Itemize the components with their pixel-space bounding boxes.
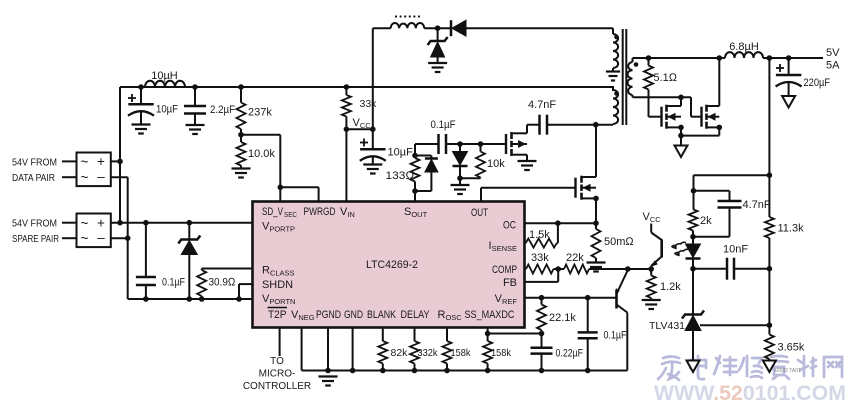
capacitor C9 0.22uF (531, 334, 553, 371)
svg-text:0.1µF: 0.1µF (431, 119, 456, 131)
node 5.1ohm top (646, 55, 652, 61)
capacitor C8 0.1uF (578, 298, 598, 371)
resistor R7 11.3k (765, 217, 774, 269)
label TO MICROCONTROLLER (243, 356, 311, 392)
svg-text:10k: 10k (487, 158, 505, 170)
svg-text:22.1k: 22.1k (549, 312, 576, 324)
wire SHDN (239, 284, 253, 299)
svg-text:PWRGD: PWRGD (304, 206, 336, 218)
svg-text:T2P: T2P (268, 309, 287, 321)
node R1-R2 junction (238, 132, 244, 138)
wire M1 gate (649, 116, 662, 118)
svg-text:10µF: 10µF (156, 104, 178, 116)
label 10k (487, 158, 505, 170)
label 332k (418, 347, 439, 359)
node VCC left (344, 126, 350, 132)
svg-text:158k: 158k (491, 347, 512, 359)
svg-text:OC: OC (503, 220, 516, 232)
label 54V FROM (data) (12, 157, 57, 169)
node rail-C2 (192, 84, 198, 90)
ground C2 (186, 125, 205, 134)
wire divider to SD_VSEC (241, 135, 280, 202)
svg-text:MICRO-: MICRO- (259, 369, 296, 380)
inductor L2 aux (391, 23, 425, 28)
svg-text:10µF: 10µF (388, 147, 414, 159)
node OC junction (555, 220, 561, 226)
wire TLV drop (692, 269, 694, 315)
node 133 top (412, 153, 418, 159)
node aux junction (435, 25, 441, 31)
label 22k (566, 252, 584, 264)
wire D5-R16 bottom (460, 178, 481, 185)
svg-text:–: – (97, 169, 105, 184)
svg-text:133Ω: 133Ω (386, 170, 416, 182)
wire GND pin (352, 328, 354, 371)
ground D5 (451, 185, 470, 194)
wire PGND (327, 328, 329, 371)
node M1 source (678, 125, 684, 131)
node D1 top (187, 220, 193, 226)
svg-text:30.9Ω: 30.9Ω (209, 277, 236, 289)
svg-text:6.8µH: 6.8µH (729, 41, 759, 53)
svg-text:220µF: 220µF (804, 77, 831, 89)
ground secondary 4 (763, 361, 776, 373)
inductor L3 6.8uH (725, 52, 763, 58)
label 82k (391, 347, 409, 359)
svg-text:DATA PAIR: DATA PAIR (12, 172, 55, 184)
svg-text:SEC: SEC (284, 210, 297, 219)
node 10nF right (767, 266, 773, 272)
label 2.2uF (210, 104, 235, 116)
wire 133 bar bottom (415, 190, 431, 192)
node 2k top (691, 188, 697, 194)
node SS junction (485, 331, 491, 337)
diode D3 zener clamp (428, 28, 448, 63)
ground PGND (319, 377, 338, 386)
node LED bottom (690, 266, 696, 272)
label + C1 (128, 94, 136, 102)
resistor R8 3.65k (765, 325, 774, 360)
wire BR2 + output / VPORTP rail (111, 222, 253, 224)
svg-text:SD_V: SD_V (262, 206, 283, 218)
resistor R17 82k (378, 328, 387, 371)
svg-text:+: + (97, 215, 105, 230)
label 158k a (451, 347, 472, 359)
node SD_VSEC junction (278, 185, 284, 191)
node D5 bottom (457, 175, 463, 181)
svg-text:+: + (97, 154, 105, 169)
wire left input vertical (119, 87, 121, 223)
svg-text:0.22µF: 0.22µF (556, 348, 584, 360)
node M2 source (717, 125, 723, 131)
node 133 bottom (412, 188, 418, 194)
resistor R15 133ohm (411, 156, 420, 192)
svg-text:–: – (97, 230, 105, 245)
resistor R5 5.1ohm (644, 58, 653, 117)
svg-text:0.1µF: 0.1µF (604, 330, 627, 342)
light arrows (672, 242, 690, 256)
label 30.9ohm (209, 277, 236, 289)
svg-text:WWW.520101.COM: WWW.520101.COM (654, 382, 846, 403)
svg-text:158k: 158k (451, 347, 472, 359)
node rail-R1 (238, 84, 244, 90)
svg-text:5.1Ω: 5.1Ω (654, 72, 678, 84)
label 5A (826, 60, 840, 72)
label 22.1k (549, 312, 576, 324)
svg-text:DELAY: DELAY (401, 309, 431, 321)
wire top input rail (120, 86, 613, 91)
transistor Q1 sync MOSFET (662, 105, 682, 129)
label DATA PAIR (12, 172, 55, 184)
wire T2P stub (279, 328, 281, 357)
node PGND (325, 368, 331, 374)
wire 4.7nF row (527, 124, 596, 126)
phase dot primary (614, 91, 619, 96)
resistor R4 33k (342, 87, 351, 129)
wire VNEG (302, 328, 628, 371)
ground secondary 3 (687, 361, 700, 373)
wire 4.7nF top (694, 191, 730, 201)
ground Q6 (518, 161, 537, 170)
svg-text:CONTROLLER: CONTROLLER (243, 381, 311, 392)
resistor R6 2k (689, 191, 698, 237)
ground C1 (132, 125, 151, 134)
resistor R12 22.1k (537, 298, 546, 334)
wire secondary top (633, 58, 726, 62)
svg-text:1.5k: 1.5k (529, 229, 550, 241)
transformer T1 secondary winding (628, 62, 633, 95)
resistor R14 50mohm (592, 223, 601, 262)
wire L2 to D2 (424, 27, 451, 29)
ground interwinding (606, 72, 620, 81)
op-amp U1 LTC4269-2 (253, 202, 525, 328)
node M2 drain rail (717, 55, 723, 61)
resistor R3 30.9ohm (197, 269, 252, 300)
diode D4 (425, 156, 438, 192)
node source gnd (678, 133, 684, 139)
label 10.0k (248, 148, 275, 160)
wire PWRGD link (280, 187, 318, 201)
node D1 bottom (187, 296, 193, 302)
svg-text:3.65k: 3.65k (778, 342, 805, 354)
node LED top (690, 234, 696, 240)
node COMP-opto (625, 266, 631, 272)
wire M2 drain (718, 58, 720, 106)
node Q5 drain (593, 122, 599, 128)
node R12 bottom (539, 331, 545, 337)
wire Q5 source (595, 198, 597, 223)
wire FB up (525, 269, 559, 282)
node COMP junction (555, 266, 561, 272)
svg-text:COMP: COMP (492, 264, 517, 276)
optocoupler LED (686, 237, 701, 269)
label 4.7nF C11 (528, 99, 556, 111)
svg-text:5V: 5V (826, 47, 840, 59)
resistor R11 22k (558, 265, 651, 274)
svg-text:332k: 332k (418, 347, 439, 359)
wire negative vertical (127, 177, 129, 299)
wire COMP (525, 268, 527, 270)
capacitor C3 0.1uF (136, 223, 156, 299)
phase dot aux (614, 35, 619, 40)
wire FB branch left (694, 175, 770, 191)
wire OC (525, 222, 558, 224)
wire VCC node (346, 128, 372, 130)
node BR2+ (117, 220, 123, 226)
svg-text:42692 TA01: 42692 TA01 (774, 368, 801, 374)
svg-text:82k: 82k (391, 347, 409, 359)
wire M1 drain (680, 97, 682, 106)
wire VPORTN rail (128, 298, 253, 300)
svg-text:VCC: VCC (353, 117, 372, 130)
wire SOUT pin (414, 191, 416, 202)
diode D2 rectifier (451, 20, 466, 36)
label 42692 TA01 (774, 368, 801, 374)
node C8 bottom (585, 368, 591, 374)
svg-text:50mΩ: 50mΩ (604, 236, 634, 248)
wire FB drop (768, 58, 770, 217)
label 2k (700, 215, 712, 227)
wire VIN drop (345, 129, 347, 201)
transformer T1 core (623, 29, 627, 125)
node rail-C1 (138, 84, 144, 90)
shunt reg U2 TLV431 (682, 311, 704, 361)
capacitor C11 4.7nF (540, 115, 548, 135)
node GND pin (350, 368, 356, 374)
node VCC right (370, 126, 376, 132)
coupling dots L2 (395, 15, 420, 17)
transformer T1 primary winding (613, 90, 618, 124)
node 158k a (444, 368, 450, 374)
ground secondary 1 (675, 146, 688, 158)
label 0.1uF C10 (431, 119, 456, 131)
bridge rectifier BR1 (62, 153, 111, 187)
label 50mohm (604, 236, 634, 248)
svg-text:SPARE PAIR: SPARE PAIR (12, 233, 59, 245)
wire VREF base (525, 297, 617, 299)
label 11.3k (778, 223, 805, 235)
svg-text:1.2k: 1.2k (660, 281, 681, 293)
svg-text:54V FROM: 54V FROM (12, 218, 57, 230)
svg-text:33k: 33k (531, 252, 549, 264)
node rail-R4 (344, 84, 350, 90)
resistor R13 1.5k (525, 223, 558, 247)
node 332k (412, 368, 418, 374)
phase dot secondary (634, 62, 639, 67)
node VREF-R12 (539, 295, 545, 301)
wire primary bottom (596, 123, 613, 126)
svg-text:BLANK: BLANK (367, 309, 397, 321)
label 237k (248, 107, 272, 119)
ground C4 (363, 165, 382, 174)
resistor R2 10.0k (237, 135, 246, 169)
resistor R1 237k (237, 87, 246, 135)
svg-text:0.1µF: 0.1µF (162, 277, 185, 289)
wire 133 top (414, 144, 416, 156)
node R3 bottom (199, 296, 205, 302)
label VCC opto (643, 211, 662, 224)
label 0.22uF (556, 348, 584, 360)
transistor Q6 gate driver (506, 132, 527, 156)
svg-text:10nF: 10nF (723, 244, 748, 256)
svg-text:~: ~ (81, 231, 89, 246)
label 10uH (151, 70, 178, 82)
label SPARE PAIR (12, 233, 59, 245)
node 158k b (485, 368, 491, 374)
node Q5 source (593, 196, 599, 202)
resistor R19 158k (443, 328, 452, 371)
capacitor C2 2.2uF (184, 87, 206, 125)
label 1.5k (529, 229, 550, 241)
wire M2 gate link (691, 97, 702, 116)
label 10nF (723, 244, 748, 256)
wire BR1 - output (111, 176, 128, 178)
svg-text:~: ~ (81, 170, 89, 185)
ground secondary 2 (782, 96, 795, 108)
svg-text:10.0k: 10.0k (248, 148, 275, 160)
label 33k comp (531, 252, 549, 264)
svg-text:FB: FB (503, 277, 517, 289)
node TLV ref (767, 322, 773, 328)
svg-text:11.3k: 11.3k (778, 223, 805, 235)
svg-text:TLV431: TLV431 (649, 320, 685, 332)
svg-text:10µH: 10µH (151, 70, 178, 82)
label 0.1uF (162, 277, 185, 289)
svg-text:GND: GND (344, 309, 363, 321)
label 6.8uH (729, 41, 759, 53)
node BR2- (111, 235, 131, 241)
node FB branch (767, 172, 773, 178)
wire aux top (373, 27, 391, 29)
wire OC to sense (558, 222, 596, 224)
transistor Q4 PNP (616, 270, 628, 371)
wire 10nF (693, 268, 769, 270)
resistor R16 10k (476, 144, 485, 178)
watermark chinese (658, 356, 842, 380)
node 82k (380, 368, 386, 374)
resistor R9 1.2k (647, 269, 656, 300)
ground R9 (642, 300, 661, 309)
svg-text:SS_MAXDC: SS_MAXDC (465, 309, 515, 321)
capacitor C6 4.7nF (718, 201, 742, 208)
node SHDN-VPORTN (236, 296, 242, 302)
label 0.1uF C8 (604, 330, 627, 342)
label 5V (826, 47, 840, 59)
svg-text:5A: 5A (826, 60, 840, 72)
label 54V FROM (spare) (12, 218, 57, 230)
capacitor C1 10uF input (128, 87, 154, 125)
label 5.1ohm (654, 72, 678, 84)
label 1.2k (660, 281, 681, 293)
wire secondary bottom (633, 95, 692, 97)
node C9 bottom (539, 368, 545, 374)
node opto emitter (648, 266, 654, 272)
svg-text:~: ~ (81, 216, 89, 231)
wire D2 to aux winding (466, 28, 613, 34)
svg-text:~: ~ (81, 155, 89, 170)
wire 133 bar top (415, 155, 431, 157)
diode D1 TVS clamp (178, 223, 200, 299)
node VREF-C8 (585, 295, 591, 301)
label 133ohm (386, 170, 416, 182)
svg-text:OUT: OUT (471, 207, 488, 219)
svg-text:2.2µF: 2.2µF (210, 104, 235, 116)
ground R14 (587, 263, 606, 272)
bridge rectifier BR2 (62, 214, 111, 248)
svg-text:SHDN: SHDN (262, 279, 293, 291)
node R16 top (478, 141, 484, 147)
watermark url (654, 382, 846, 403)
svg-text:33k: 33k (360, 98, 378, 110)
transistor Q5 main MOSFET (576, 176, 597, 200)
capacitor C7 10nF (727, 258, 734, 280)
svg-text:22k: 22k (566, 252, 584, 264)
svg-text:4.7nF: 4.7nF (743, 199, 771, 211)
ground R2 (232, 169, 251, 178)
resistor R18 332k (410, 328, 419, 371)
label TLV431 (649, 320, 685, 332)
svg-text:VCC: VCC (643, 211, 662, 224)
label 10uF C4 (388, 147, 414, 159)
svg-text:237k: 237k (248, 107, 272, 119)
transistor Q2 sync MOSFET (702, 105, 720, 129)
capacitor C4 10uF VCC (360, 129, 386, 164)
wire TLV ref (700, 269, 769, 326)
wire sources join (681, 127, 719, 145)
label + C4 (360, 139, 368, 147)
wire 4.7nF bottom (693, 208, 730, 237)
label 220uF (804, 77, 831, 89)
label 10uF (156, 104, 178, 116)
node sense (593, 220, 599, 226)
wire output (763, 57, 823, 59)
label 4.7nF C6 (743, 199, 771, 211)
svg-text:4.7nF: 4.7nF (528, 99, 556, 111)
phototransistor Q3 (651, 224, 662, 270)
wire SS line (488, 333, 542, 335)
svg-text:TO: TO (270, 356, 284, 367)
wire aux winding to shield gnd (612, 68, 614, 72)
node C3 bottom (143, 296, 149, 302)
svg-text:LTC4269-2: LTC4269-2 (366, 259, 418, 271)
transformer T1 aux winding (613, 34, 618, 68)
wire Q6 source (526, 155, 528, 161)
node FB tap (767, 55, 773, 61)
wire aux vertical (372, 28, 374, 129)
wire SOUT cap row (415, 143, 506, 145)
resistor R20 158k (483, 328, 492, 371)
ground D3 (428, 63, 447, 72)
resistor R10 33k (526, 265, 558, 274)
node diode D5 top (457, 141, 463, 147)
wire BR1 + output (111, 160, 120, 162)
label VCC (353, 117, 372, 130)
node M1 drain (678, 95, 684, 101)
wire OUT gate (481, 188, 576, 202)
svg-text:PGND: PGND (316, 309, 341, 321)
svg-text:2k: 2k (700, 215, 712, 227)
label 33k (360, 98, 378, 110)
node output cap (786, 55, 792, 61)
wire Q5 drain (595, 125, 597, 177)
inductor L1 10uH (145, 81, 185, 87)
label 158k b (491, 347, 512, 359)
node BR1+ (117, 159, 123, 165)
capacitor C10 0.1uF gate (439, 134, 447, 154)
wire Q6 drain (526, 125, 528, 134)
diode D5 (453, 144, 468, 178)
svg-text:54V FROM: 54V FROM (12, 157, 57, 169)
